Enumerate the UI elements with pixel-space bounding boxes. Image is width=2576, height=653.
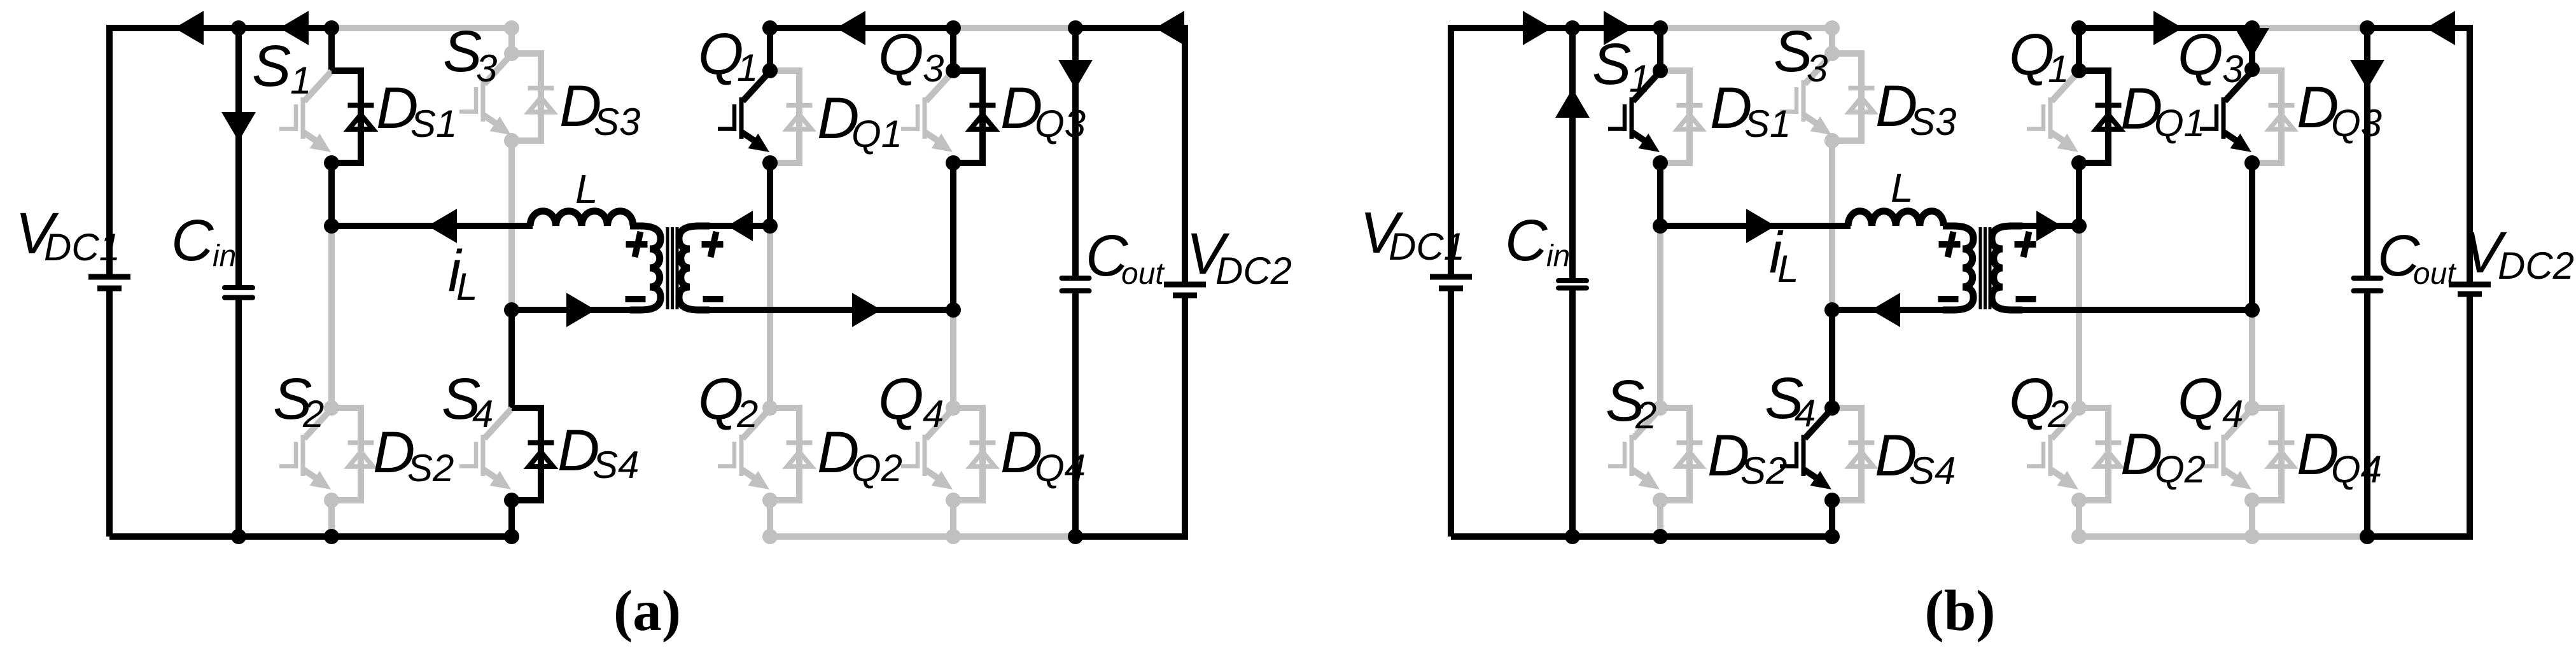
svg-text:Q4: Q4 bbox=[1035, 447, 1086, 489]
node Q2 top (b) bbox=[2071, 400, 2087, 416]
arrow top rail toward Cin (b) bbox=[1523, 11, 1552, 45]
svg-text:Q1: Q1 bbox=[851, 113, 902, 155]
node Q4 top (b) bbox=[2244, 400, 2260, 416]
node Q4 bottom rail (a) bbox=[946, 529, 961, 544]
node S4 midpoint (b) bbox=[1824, 302, 1840, 318]
svg-text:3: 3 bbox=[923, 47, 944, 90]
svg-text:S: S bbox=[252, 34, 291, 99]
svg-text:1: 1 bbox=[2048, 48, 2069, 90]
node Cout bottom rail (b) bbox=[2360, 529, 2375, 544]
transformer core (a) bbox=[668, 227, 677, 309]
wire Q4 collector (a) bbox=[950, 310, 956, 408]
wire Q3 collector (b) bbox=[2249, 28, 2255, 71]
wire S2 collector (b) bbox=[1657, 226, 1663, 408]
wire S3 collector (b) bbox=[1829, 28, 1835, 53]
svg-text:4: 4 bbox=[923, 393, 944, 435]
node Q2 top (a) bbox=[762, 400, 778, 416]
wire secondary bottom to Q3 midpoint (b) bbox=[2019, 307, 2252, 313]
capacitor Cout (a) bbox=[1072, 28, 1079, 278]
wire Q2 collector (a) bbox=[767, 226, 773, 408]
node Q4 bottom (b) bbox=[2244, 493, 2260, 508]
IGBT S2 (b) bbox=[1608, 409, 1660, 482]
svg-text:DC1: DC1 bbox=[1389, 225, 1465, 268]
svg-text:4: 4 bbox=[1795, 392, 1816, 435]
diode DS4 (a) bbox=[512, 408, 554, 500]
wire S3 emitter to midpoint (b) bbox=[1829, 141, 1835, 310]
voltage source VDC2 (b) bbox=[2467, 25, 2473, 284]
svg-text:Q: Q bbox=[2178, 22, 2223, 87]
node S2 top (a) bbox=[324, 400, 339, 416]
arrow top rail toward S1 (b) bbox=[1604, 11, 1633, 45]
node Q2 bottom (a) bbox=[762, 493, 778, 508]
IGBT Q1 (a) bbox=[718, 71, 770, 145]
voltage source VDC1 (b) bbox=[1448, 25, 1454, 277]
node Cin top rail (a) bbox=[231, 20, 246, 36]
node Q1 bottom (b) bbox=[2071, 155, 2087, 171]
voltage source VDC2 (a) bbox=[1182, 25, 1188, 284]
svg-text:2: 2 bbox=[736, 393, 758, 435]
arrow VDC2 to Cout (b) bbox=[2426, 11, 2455, 45]
node S4 bottom (b) bbox=[1824, 493, 1840, 508]
node Q1 bottom (a) bbox=[762, 155, 778, 171]
arrow primary return current (a) bbox=[566, 293, 596, 327]
arrow Cin discharge up (b) bbox=[1555, 88, 1590, 118]
wire S2 collector (a) bbox=[328, 226, 335, 408]
label primary minus (b) bbox=[1938, 296, 1959, 302]
wire Q1 collector (b) bbox=[2076, 28, 2082, 71]
svg-text:1: 1 bbox=[737, 46, 758, 89]
IGBT S1 (a) bbox=[279, 71, 332, 145]
label secondary minus (a) bbox=[703, 296, 724, 302]
wire bottom rail VDC1 to S4 (a) bbox=[109, 533, 512, 540]
node S3 top rail (a) bbox=[504, 20, 519, 36]
wire secondary winding to Q1 midpoint (b) bbox=[2019, 223, 2079, 229]
wire top rail VDC1 to S1 (b) bbox=[1451, 25, 1660, 31]
arrow Cout branch down (a) bbox=[1058, 60, 1093, 89]
node Q3 bottom (a) bbox=[946, 155, 961, 171]
wire secondary bottom to Q3 midpoint (a) bbox=[706, 307, 953, 313]
IGBT Q4 (b) bbox=[2200, 409, 2252, 482]
transformer primary winding (b) bbox=[1943, 226, 1973, 310]
arrow inductor current iL (a) bbox=[428, 209, 457, 243]
svg-text:S2: S2 bbox=[1740, 449, 1787, 492]
wire Q1 collector (a) bbox=[767, 28, 773, 71]
node Q3 top (b) bbox=[2244, 62, 2260, 77]
wire Q3 emitter to midpoint (b) bbox=[2249, 163, 2255, 310]
arrow Cout branch down (b) bbox=[2350, 60, 2384, 89]
diode DS1 (b) bbox=[1660, 71, 1703, 163]
node Q1 midpoint (a) bbox=[762, 218, 778, 234]
svg-text:4: 4 bbox=[2222, 393, 2243, 435]
arrow top rail toward Cin (a) bbox=[279, 11, 309, 45]
node Cin top rail (b) bbox=[1565, 20, 1580, 36]
node Cin bottom rail (b) bbox=[1565, 529, 1580, 544]
node Q1 top rail (b) bbox=[2071, 20, 2087, 36]
capacitor Cin (b) bbox=[1569, 28, 1576, 281]
wire top rail S1 to S3 (b) bbox=[1660, 25, 1832, 31]
node S3 top (b) bbox=[1824, 46, 1840, 61]
transformer secondary winding (a) bbox=[679, 226, 710, 310]
svg-text:3: 3 bbox=[1807, 47, 1828, 90]
transformer primary winding (a) bbox=[630, 226, 661, 310]
arrow secondary top current (a) bbox=[727, 211, 753, 241]
svg-text:Q3: Q3 bbox=[1035, 102, 1086, 145]
arrow secondary top current (b) bbox=[2036, 211, 2062, 241]
arrow secondary bottom current (a) bbox=[852, 293, 881, 327]
svg-text:1: 1 bbox=[1629, 57, 1650, 100]
node Q2 bottom rail (b) bbox=[2071, 529, 2087, 544]
svg-text:(a): (a) bbox=[613, 579, 681, 643]
node S3 top (a) bbox=[504, 46, 519, 61]
wire primary bottom to S4 midpoint (a) bbox=[512, 307, 634, 313]
node Q3 top rail (a) bbox=[946, 20, 961, 36]
IGBT S2 (a) bbox=[279, 409, 332, 482]
wire bottom rail VDC1 to S4 (b) bbox=[1451, 533, 1832, 540]
wire S2 emitter to rail (a) bbox=[328, 500, 335, 537]
node S1 top rail (b) bbox=[1653, 20, 1668, 36]
diode DQ4 (b) bbox=[2252, 408, 2295, 500]
svg-text:out: out bbox=[2413, 257, 2456, 291]
node S3 bottom (a) bbox=[504, 133, 519, 148]
diode DQ2 (a) bbox=[770, 408, 813, 500]
node Q2 bottom (b) bbox=[2071, 493, 2087, 508]
node S2 bottom rail (a) bbox=[324, 529, 339, 544]
svg-text:DC2: DC2 bbox=[2498, 244, 2574, 287]
transformer secondary winding (b) bbox=[1992, 226, 2022, 310]
diode DS3 (b) bbox=[1832, 53, 1875, 141]
wire Q4 emitter to rail (a) bbox=[950, 500, 956, 537]
svg-text:S1: S1 bbox=[410, 102, 457, 145]
arrow Cin charging down (a) bbox=[221, 112, 256, 141]
svg-text:C: C bbox=[171, 208, 214, 273]
arrow primary return current (b) bbox=[1871, 293, 1900, 327]
node Q1 top (a) bbox=[762, 63, 778, 78]
wire node A to inductor (b) bbox=[1660, 223, 1851, 229]
node Q4 top (a) bbox=[946, 400, 961, 416]
svg-text:DC1: DC1 bbox=[44, 226, 120, 269]
node S4 bottom rail (a) bbox=[504, 529, 519, 544]
diode DS2 (a) bbox=[332, 408, 374, 500]
wire bottom rail Q2 to Cout (a) bbox=[770, 533, 1075, 540]
label secondary plus (a) bbox=[702, 232, 724, 257]
svg-text:L: L bbox=[575, 166, 598, 212]
node Cout top rail (b) bbox=[2360, 20, 2375, 36]
node S4 midpoint (a) bbox=[504, 302, 519, 318]
wire Q2 collector (b) bbox=[2076, 226, 2082, 408]
node Q1 top (b) bbox=[2071, 63, 2087, 78]
label primary plus (b) bbox=[1939, 232, 1961, 257]
wire S1 emitter to node A (a) bbox=[328, 163, 335, 226]
capacitor Cin (a) bbox=[235, 28, 242, 288]
wire secondary winding to Q1 midpoint (a) bbox=[706, 223, 770, 229]
diode DQ2 (b) bbox=[2079, 408, 2122, 500]
IGBT Q3 (a) bbox=[901, 71, 953, 145]
IGBT S3 (a) bbox=[459, 54, 512, 128]
wire top rail S1 to S3 (a) bbox=[332, 25, 512, 31]
wire S1 emitter to node A (b) bbox=[1657, 163, 1663, 226]
wire Q4 collector (b) bbox=[2249, 310, 2255, 408]
wire inductor to primary winding (a) bbox=[633, 223, 634, 229]
diode DQ3 (a) bbox=[953, 71, 996, 163]
wire top rail Q1 to Q3 (b) bbox=[2079, 25, 2252, 31]
wire S3 emitter to midpoint (a) bbox=[508, 141, 515, 310]
inductor L (b) bbox=[1848, 211, 1943, 226]
node A (a) bbox=[324, 218, 339, 234]
diode DQ1 (b) bbox=[2079, 71, 2122, 163]
node Cin bottom rail (a) bbox=[231, 529, 246, 544]
wire S4 emitter to rail (a) bbox=[508, 500, 515, 537]
wire S4 collector (b) bbox=[1829, 310, 1835, 408]
wire S4 collector (a) bbox=[508, 310, 515, 408]
node Q1 top rail (a) bbox=[762, 20, 778, 36]
node S4 bottom (a) bbox=[504, 493, 519, 508]
svg-text:L: L bbox=[1777, 248, 1798, 290]
diode DS2 (b) bbox=[1660, 408, 1703, 500]
IGBT Q2 (b) bbox=[2027, 409, 2079, 482]
svg-text:out: out bbox=[1121, 257, 1165, 291]
diode DQ3 (b) bbox=[2252, 71, 2295, 163]
wire S3 collector (a) bbox=[508, 28, 515, 53]
IGBT Q3 (b) bbox=[2200, 71, 2252, 145]
IGBT S3 (b) bbox=[1780, 54, 1832, 128]
svg-text:L: L bbox=[456, 265, 477, 308]
arrow top rail toward VDC1 (a) bbox=[174, 11, 204, 45]
node Q3 top rail (b) bbox=[2244, 20, 2260, 36]
label primary plus (a) bbox=[626, 232, 648, 257]
svg-text:in: in bbox=[1546, 239, 1570, 273]
svg-text:C: C bbox=[1505, 208, 1548, 273]
IGBT Q2 (a) bbox=[718, 409, 770, 482]
svg-text:L: L bbox=[1891, 165, 1914, 211]
node Q4 bottom (a) bbox=[946, 493, 961, 508]
node S3 bottom (b) bbox=[1824, 133, 1840, 148]
svg-text:Q2: Q2 bbox=[2155, 448, 2206, 491]
svg-text:Q3: Q3 bbox=[2331, 102, 2382, 144]
node S1 top (b) bbox=[1653, 63, 1668, 78]
node S4 bottom rail (b) bbox=[1824, 529, 1840, 544]
node Q3 bottom (b) bbox=[2244, 155, 2260, 171]
arrow current into Q3 (b) bbox=[2235, 28, 2269, 57]
node S4 top (b) bbox=[1824, 400, 1840, 416]
node S3 top rail (b) bbox=[1824, 20, 1840, 36]
node S1 bottom (b) bbox=[1653, 155, 1668, 171]
diode DQ4 (a) bbox=[953, 408, 996, 500]
wire Q3 collector (a) bbox=[950, 28, 956, 71]
svg-text:Q2: Q2 bbox=[851, 447, 902, 489]
node Q4 bottom rail (b) bbox=[2244, 529, 2260, 544]
svg-text:S2: S2 bbox=[407, 447, 454, 489]
label primary minus (a) bbox=[626, 296, 646, 302]
svg-text:2: 2 bbox=[302, 393, 324, 435]
node Cout top rail (a) bbox=[1068, 20, 1083, 36]
svg-text:3: 3 bbox=[2222, 48, 2243, 90]
IGBT Q4 (a) bbox=[901, 409, 953, 482]
svg-text:Q1: Q1 bbox=[2154, 102, 2205, 144]
wire primary bottom to S4 midpoint (b) bbox=[1832, 307, 1947, 313]
svg-text:Q4: Q4 bbox=[2331, 448, 2382, 491]
IGBT S1 (b) bbox=[1608, 71, 1660, 145]
svg-text:(b): (b) bbox=[1924, 579, 1995, 643]
wire S1 collector (b) bbox=[1657, 28, 1663, 71]
wire bottom rail Cout to VDC2 (a) bbox=[1075, 533, 1185, 540]
node Q1 midpoint (b) bbox=[2071, 218, 2087, 234]
arrow top rail Q3 to Q1 (a) bbox=[836, 11, 865, 45]
wire inductor to primary winding (b) bbox=[1943, 223, 1947, 229]
svg-text:S3: S3 bbox=[594, 101, 640, 143]
wire bottom rail Cout to VDC2 (b) bbox=[2367, 533, 2470, 540]
capacitor Cout (b) bbox=[2364, 28, 2370, 278]
node S2 bottom (b) bbox=[1653, 493, 1668, 508]
node Q3 midpoint (b) bbox=[2244, 302, 2260, 318]
node Q3 top (a) bbox=[946, 63, 961, 78]
label secondary minus (b) bbox=[2016, 296, 2036, 302]
svg-text:3: 3 bbox=[476, 47, 497, 90]
wire top rail Cout to VDC2 (a) bbox=[1075, 25, 1185, 31]
node S2 top (b) bbox=[1653, 400, 1668, 416]
svg-text:S: S bbox=[1592, 32, 1631, 97]
wire top rail Q3 to Cout (b) bbox=[2252, 25, 2367, 31]
diode DQ1 (a) bbox=[770, 71, 813, 163]
svg-text:S4: S4 bbox=[1909, 449, 1956, 492]
wire Q1 emitter to midpoint (b) bbox=[2076, 163, 2082, 226]
node Cout bottom rail (a) bbox=[1068, 529, 1083, 544]
svg-text:Q: Q bbox=[878, 367, 924, 432]
svg-text:S4: S4 bbox=[592, 444, 639, 486]
svg-text:DC2: DC2 bbox=[1215, 249, 1292, 292]
wire Q1 emitter to midpoint (a) bbox=[767, 163, 773, 226]
svg-text:Q: Q bbox=[2178, 367, 2223, 432]
node Q2 bottom rail (a) bbox=[762, 529, 778, 544]
wire Q2 emitter to rail (a) bbox=[767, 500, 773, 537]
node S2 bottom rail (b) bbox=[1653, 529, 1668, 544]
wire top rail Q1 to Q3 (a) bbox=[770, 25, 953, 31]
node S2 bottom (a) bbox=[324, 493, 339, 508]
wire Q3 emitter to midpoint (a) bbox=[950, 163, 956, 310]
inductor L (a) bbox=[530, 211, 633, 226]
node S1 top rail (a) bbox=[324, 20, 339, 36]
svg-text:2: 2 bbox=[1635, 394, 1656, 437]
arrow VDC2 to Cout (a) bbox=[1155, 11, 1184, 45]
diode DS1 (a) bbox=[332, 71, 374, 163]
svg-text:1: 1 bbox=[290, 59, 311, 102]
svg-text:Q: Q bbox=[878, 22, 924, 87]
wire S1 collector (a) bbox=[328, 28, 335, 71]
svg-text:S3: S3 bbox=[1910, 101, 1956, 143]
svg-text:in: in bbox=[213, 239, 236, 273]
transformer core (b) bbox=[1980, 227, 1990, 309]
wire S4 emitter to rail (b) bbox=[1829, 500, 1835, 537]
voltage source VDC1 (a) bbox=[106, 25, 113, 277]
IGBT S4 (b) bbox=[1780, 409, 1832, 482]
wire top rail Q3 to Cout (a) bbox=[953, 25, 1075, 31]
svg-text:S1: S1 bbox=[1744, 102, 1791, 145]
wire bottom rail Q2 to Cout (b) bbox=[2079, 533, 2367, 540]
wire Q4 emitter to rail (b) bbox=[2249, 500, 2255, 537]
svg-text:2: 2 bbox=[2047, 393, 2069, 435]
diode DS4 (b) bbox=[1832, 408, 1875, 500]
IGBT Q1 (b) bbox=[2027, 71, 2079, 145]
diode DS3 (a) bbox=[512, 53, 554, 141]
IGBT S4 (a) bbox=[459, 409, 512, 482]
arrow top rail Q1 to Q3 (b) bbox=[2153, 11, 2183, 45]
wire top rail VDC1 to S1 (a) bbox=[109, 25, 332, 31]
wire Q2 emitter to rail (b) bbox=[2076, 500, 2082, 537]
arrow inductor current iL (b) bbox=[1746, 209, 1775, 243]
wire node A to inductor (a) bbox=[332, 223, 533, 229]
wire top rail Cout to VDC2 (b) bbox=[2367, 25, 2470, 31]
node S1 bottom (a) bbox=[324, 155, 339, 171]
wire S2 emitter to rail (b) bbox=[1657, 500, 1663, 537]
node Q3 midpoint (a) bbox=[946, 302, 961, 318]
label secondary plus (b) bbox=[2015, 232, 2036, 257]
svg-text:4: 4 bbox=[472, 393, 493, 435]
node A (b) bbox=[1653, 218, 1668, 234]
